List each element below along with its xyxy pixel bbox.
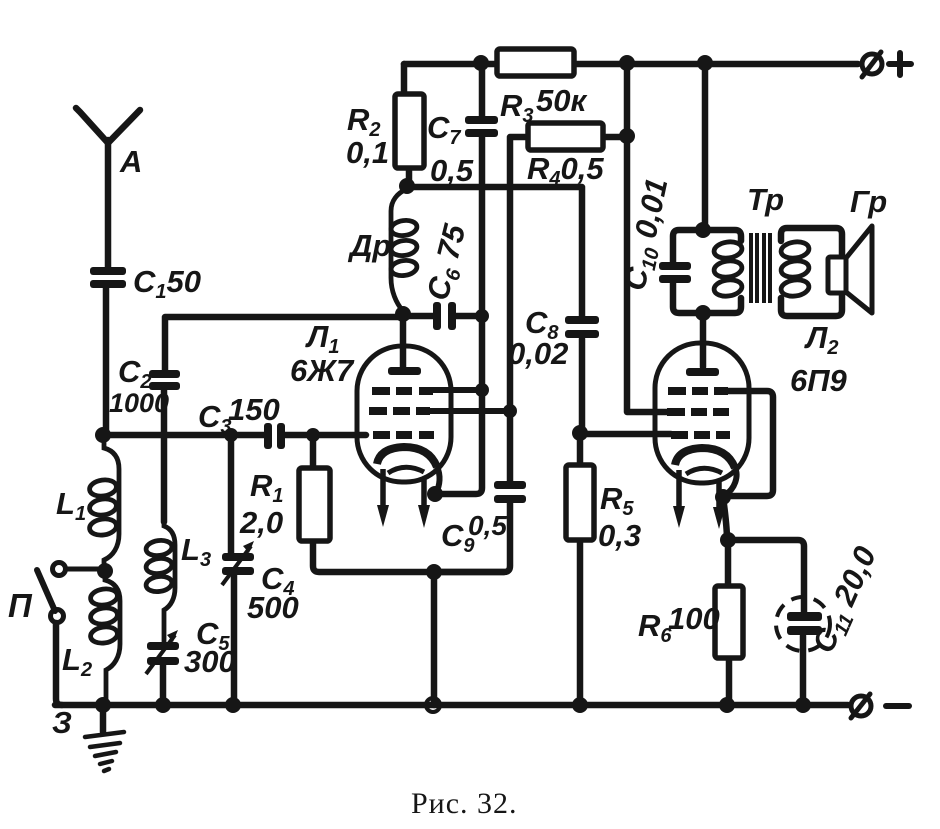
svg-text:Тр: Тр (747, 182, 784, 217)
svg-text:0,5: 0,5 (468, 510, 507, 541)
svg-text:C6 75: C6 75 (420, 220, 477, 305)
svg-text:500: 500 (247, 590, 299, 625)
svg-text:R40,5: R40,5 (527, 151, 604, 190)
svg-text:R5: R5 (600, 481, 634, 520)
svg-text:Л2: Л2 (804, 320, 838, 359)
svg-text:1000: 1000 (109, 388, 169, 418)
svg-text:L3: L3 (181, 532, 211, 571)
svg-text:150: 150 (228, 392, 280, 427)
svg-text:0,5: 0,5 (430, 153, 474, 188)
svg-text:A: A (119, 144, 142, 179)
svg-text:L2: L2 (62, 642, 92, 681)
svg-text:0,02: 0,02 (508, 336, 568, 371)
svg-text:50к: 50к (536, 83, 587, 118)
svg-text:R3: R3 (500, 88, 534, 127)
svg-text:100: 100 (668, 601, 720, 636)
svg-text:R1: R1 (250, 468, 284, 507)
svg-text:0,1: 0,1 (346, 135, 389, 170)
svg-text:П: П (8, 587, 33, 624)
svg-text:2,0: 2,0 (239, 505, 283, 540)
svg-text:6Ж7: 6Ж7 (290, 353, 355, 388)
svg-text:C3: C3 (198, 399, 232, 438)
svg-text:6П9: 6П9 (790, 363, 848, 398)
svg-text:C7: C7 (427, 110, 461, 149)
svg-text:0,3: 0,3 (598, 518, 641, 553)
svg-text:Гр: Гр (850, 184, 887, 219)
svg-text:300: 300 (184, 644, 236, 679)
svg-text:Рис. 32.: Рис. 32. (411, 787, 518, 820)
svg-text:З: З (52, 705, 72, 740)
svg-text:C150: C150 (133, 264, 201, 303)
svg-text:Др: Др (347, 228, 391, 263)
svg-text:L1: L1 (56, 486, 86, 525)
